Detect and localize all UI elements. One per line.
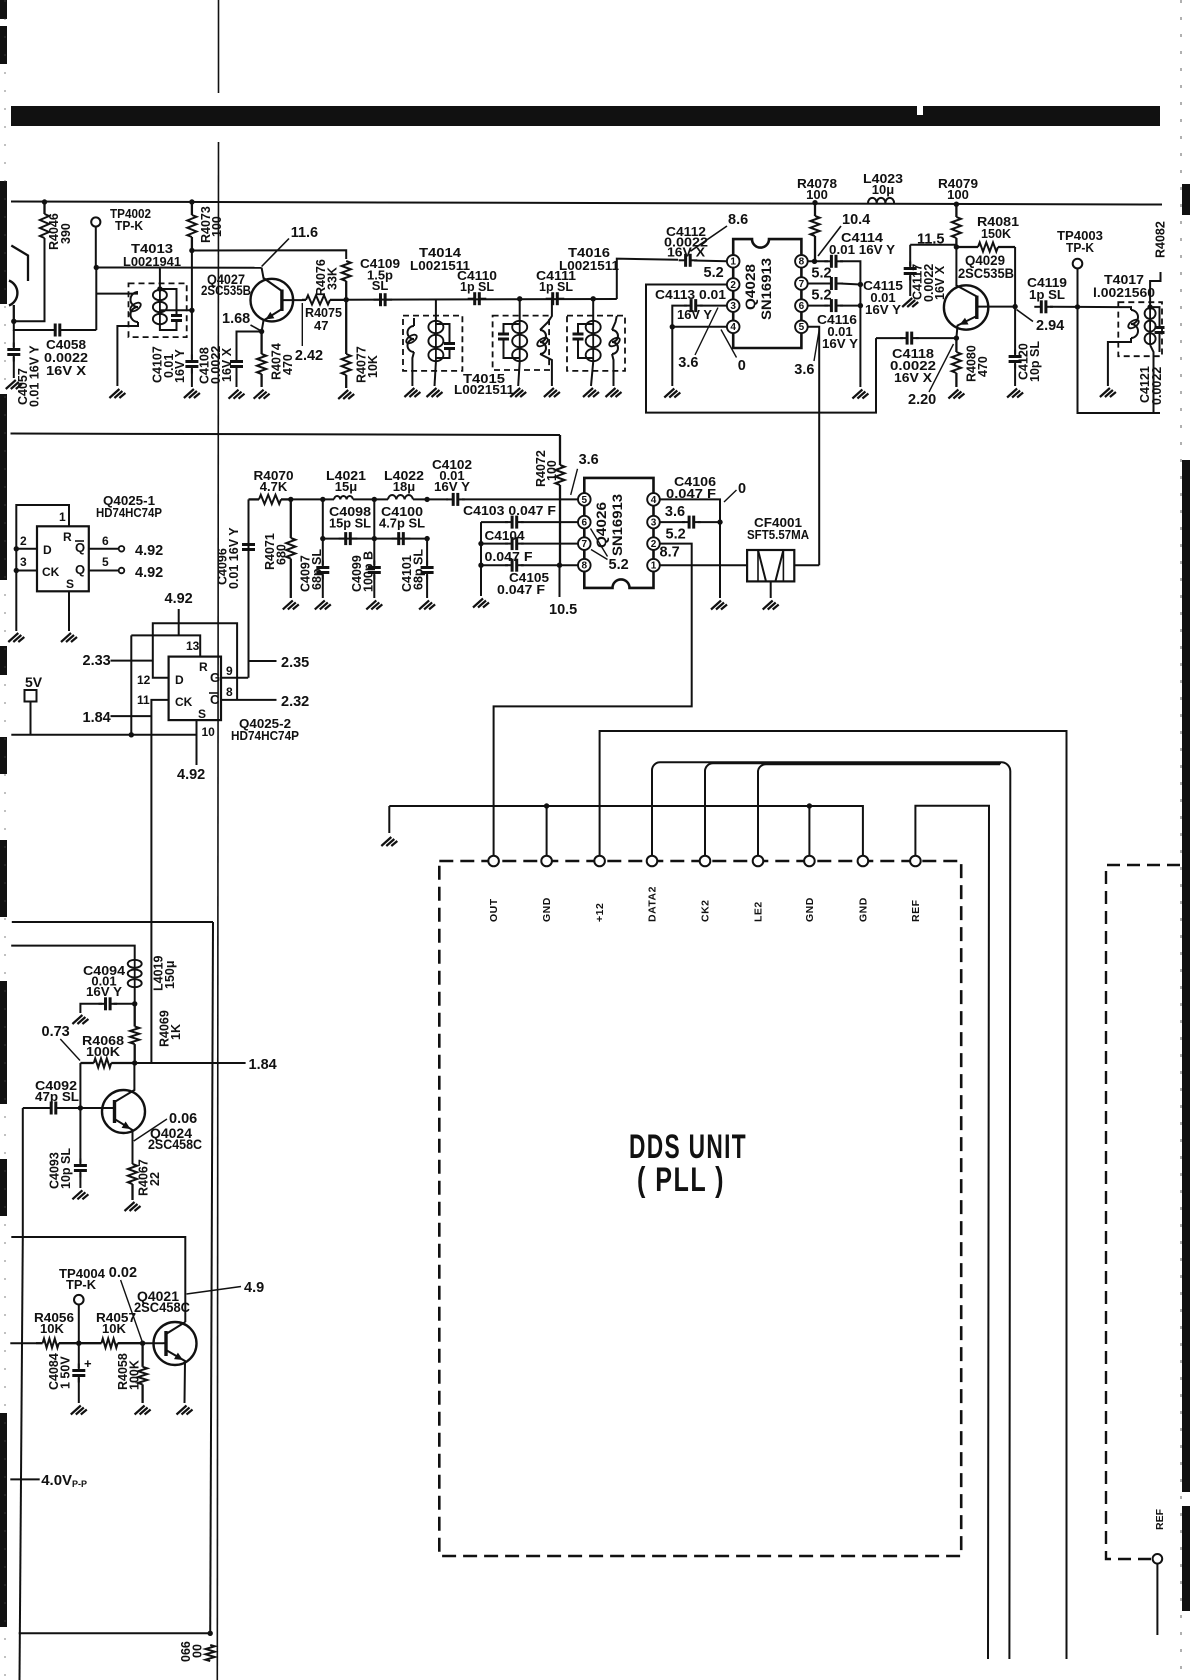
svg-text:10: 10 (202, 725, 216, 739)
svg-text:680: 680 (275, 544, 289, 565)
DDS connector +12 (594, 856, 605, 867)
leader 5.2 pin6 (591, 529, 608, 557)
wire Q4026 pin1 (660, 564, 747, 566)
wire L4021 to L4022 (353, 498, 388, 500)
flip-flop Q4025-1 box (37, 526, 89, 591)
svg-text:CK: CK (175, 695, 193, 709)
svg-text:16V Y: 16V Y (677, 307, 712, 322)
wire GND1 drop (546, 806, 548, 856)
node R4079/base (954, 244, 959, 249)
T4017 primary coil (1127, 310, 1141, 338)
wire 2.35 line (248, 660, 276, 662)
wire C4057 vertical (13, 330, 15, 347)
resistor R4071 (286, 499, 295, 598)
resistor R4070 (249, 495, 291, 504)
wire REF route (915, 806, 989, 1659)
wire L4022 to C4102 (413, 498, 448, 500)
Q4028 pin 3 (727, 299, 740, 312)
transformer T4015 coil (512, 320, 527, 362)
ground C4108 (184, 389, 200, 398)
T4016 output bottom lead (612, 354, 614, 386)
node R4070/R4071 (288, 497, 293, 502)
resistor R4079 (952, 204, 961, 247)
leader 4.9 (187, 1287, 242, 1295)
junction rail/R4079 (954, 202, 959, 207)
svg-text:10μ: 10μ (872, 182, 894, 197)
svg-text:0.047 F: 0.047 F (485, 549, 533, 564)
svg-text:100p B: 100p B (362, 551, 376, 592)
node row/C4099 (372, 536, 377, 541)
T4016 output top lead (612, 316, 617, 330)
leader 3.6 Q4026 (571, 469, 578, 495)
capacitor C4112 (679, 254, 698, 267)
svg-text:22: 22 (148, 1172, 162, 1186)
svg-text:68p SL: 68p SL (412, 549, 426, 590)
svg-text:16V X: 16V X (933, 265, 947, 300)
svg-text:SFT5.57MA: SFT5.57MA (747, 527, 810, 542)
ground T4017 primary (1100, 388, 1116, 397)
node L4019/C4094/R4069 (132, 1001, 137, 1006)
capacitor C4107 (in T4013) (171, 309, 182, 328)
capacitor C4121 (in T4017) (1155, 321, 1165, 340)
svg-text:10K: 10K (366, 355, 380, 378)
svg-text:4: 4 (730, 322, 736, 333)
node T4016 drop (591, 296, 596, 301)
C4121 top lead (1150, 307, 1159, 327)
DDS connector GND (858, 856, 869, 867)
svg-text:Q4026: Q4026 (594, 501, 609, 548)
svg-text:8.6: 8.6 (728, 212, 748, 228)
capacitor C4119 (1034, 300, 1053, 313)
svg-text:100: 100 (947, 187, 969, 202)
wire osc box top (12, 921, 213, 923)
node 5V/R line (129, 732, 134, 737)
ground Q4026 pin4 line (711, 601, 727, 610)
Q4028 pin 1 (727, 255, 740, 268)
capacitor C4114 (824, 255, 843, 268)
svg-text:1p SL: 1p SL (460, 279, 494, 294)
capacitor C4103 (505, 516, 524, 529)
T4017 secondary top out (1150, 272, 1160, 307)
svg-text:G: G (210, 670, 220, 685)
Q4028 pin 2 (727, 278, 740, 291)
wire C4114 to gnd rail (840, 261, 860, 387)
wire C4098 row (323, 538, 427, 540)
wire base Q4024 (80, 1107, 102, 1109)
wire pin8 to C4114 (808, 260, 828, 262)
T4016 output coil (608, 330, 622, 354)
svg-text:18μ: 18μ (393, 479, 415, 494)
capacitor C4092 (44, 1102, 63, 1115)
leader 10.4 (818, 226, 841, 256)
node L4021 left (320, 497, 325, 502)
node C4105 shunt (478, 563, 483, 568)
svg-text:16V Y: 16V Y (822, 336, 858, 351)
capacitor C4105 (505, 559, 524, 572)
svg-text:1.68: 1.68 (222, 311, 250, 327)
svg-text:+12: +12 (594, 903, 606, 922)
wire Q4026 pin4 (660, 499, 720, 598)
wire Q4025-1 R loop (16, 505, 69, 631)
terminal Q4025-1 pin6 (119, 546, 125, 552)
wire C4106 to vert (698, 521, 720, 523)
node R4057/R4058/base (140, 1341, 145, 1346)
svg-text:HD74HC74P: HD74HC74P (96, 505, 162, 520)
svg-text:16V X: 16V X (894, 370, 932, 385)
svg-text:6: 6 (799, 301, 805, 312)
svg-text:100: 100 (545, 460, 559, 481)
wire 5V line (11, 734, 196, 736)
capacitor C4110 (468, 292, 487, 305)
svg-text:l.0021560: l.0021560 (1093, 285, 1155, 300)
svg-text:5.2: 5.2 (666, 527, 686, 543)
node R4073 bottom (189, 248, 194, 253)
node C4106/pin4 vert (717, 519, 722, 524)
T4013 primary bottom lead (117, 322, 138, 386)
svg-text:3: 3 (730, 301, 736, 312)
ground T4014 secondary (427, 388, 443, 397)
svg-text:0.01 16V Y: 0.01 16V Y (28, 345, 42, 407)
svg-text:4.92: 4.92 (135, 543, 163, 559)
left edge registration bars (0, 0, 7, 1627)
wire C4103 line (481, 521, 508, 523)
leader 8.6 (690, 226, 727, 251)
flip-flop Q4025-2 box (169, 657, 221, 721)
svg-text:2.35: 2.35 (281, 655, 309, 671)
left edge dashed film line (4, 0, 6, 1680)
wire base Q4021 (143, 1342, 163, 1344)
terminal Q4025-1 pin5 (119, 568, 125, 574)
wire emitter to bypass cap (237, 332, 262, 360)
T4013 primary top lead (96, 293, 138, 295)
leader 0.02 (121, 1280, 142, 1341)
node emitter of partial transistor (11, 319, 16, 324)
capacitor C4102 (446, 493, 465, 506)
svg-text:2SC535B: 2SC535B (201, 283, 251, 298)
svg-text:16V X: 16V X (667, 245, 705, 260)
Q4028 pin 7 (795, 277, 808, 290)
ground T4015 output (544, 388, 560, 397)
thick top separator bar (11, 106, 1160, 126)
capacitor C4093 (74, 1159, 87, 1178)
svg-text:10p SL: 10p SL (1028, 341, 1042, 382)
node row/C4101 (424, 536, 429, 541)
node bus/GND1 (544, 803, 549, 808)
wire Q4025-1 S to ground (68, 591, 70, 631)
svg-text:C4104: C4104 (485, 528, 526, 543)
ground T4016 output (606, 388, 622, 397)
capacitor C4057 (7, 343, 20, 362)
node TP4002/C4058 (94, 265, 99, 270)
wire C4113 to pin3 (700, 305, 727, 307)
wire Q4025-2 CK route (151, 700, 168, 1063)
svg-text:3: 3 (651, 518, 657, 529)
resistor R4057 (79, 1339, 143, 1348)
svg-text:150K: 150K (981, 226, 1012, 241)
svg-text:3.6: 3.6 (579, 452, 599, 468)
ground C4094 (72, 1015, 88, 1024)
svg-text:2: 2 (651, 539, 657, 550)
resistor R4080 (952, 338, 961, 387)
T4013 internal cap bottom lead (160, 323, 177, 330)
wire C4120 drop (1014, 307, 1016, 354)
svg-text:47: 47 (314, 318, 328, 333)
svg-text:GND: GND (541, 897, 553, 922)
svg-text:L0021941: L0021941 (123, 254, 181, 269)
leader 2.20 (929, 344, 954, 392)
wire 5V stub (30, 702, 32, 735)
resistor R4056 (36, 1339, 79, 1348)
ground R4058 (135, 1406, 151, 1415)
ground T4015 (510, 388, 526, 397)
wire C4103 shunt vertical (480, 522, 482, 596)
svg-text:8.7: 8.7 (660, 545, 680, 561)
Q4028 pin 4 (727, 321, 740, 334)
svg-text:16V Y: 16V Y (434, 479, 470, 494)
wire C4112 to Q4028 pin1 (694, 260, 727, 263)
transistor Q4024 (102, 1063, 145, 1164)
IC Q4028 body (733, 239, 801, 348)
T4014 primary top stub (413, 318, 415, 326)
wire T4017 bottom loop (1078, 307, 1161, 413)
wire TP4004 stub (78, 1305, 80, 1344)
svg-text:+: + (84, 1356, 92, 1371)
wire Q4025-1 pin5 (89, 570, 119, 572)
transformer T4014 coil (428, 320, 443, 362)
node base/R4076/C4109 (344, 297, 349, 302)
wire Q4026 pin2 to OUT (494, 544, 692, 856)
leader 2.94 (1017, 310, 1034, 322)
capacitor C4098 (339, 532, 358, 545)
wire C4092 feed down (22, 1108, 24, 1237)
junction rail/R4078 (812, 200, 817, 205)
capacitor C4104 (505, 537, 524, 550)
leader 0 Q4026 (724, 490, 737, 502)
wire Q4025-2 R to 5V (130, 635, 132, 734)
svg-text:R: R (199, 660, 208, 674)
wire R4070 to L4021 (291, 498, 334, 500)
wire C4092 to base node (60, 1107, 81, 1109)
wire 11.5 line (910, 244, 956, 246)
wire Q4026 pin3 (660, 521, 685, 523)
inductor L4023 (868, 198, 894, 203)
T4016 drop (592, 299, 594, 320)
leader 3.6 Q4028 left (695, 308, 718, 356)
svg-text:2: 2 (20, 534, 27, 548)
svg-text:470: 470 (976, 356, 990, 377)
wire C4118 to emitter (916, 337, 957, 339)
capacitor C4099 (368, 561, 381, 580)
svg-text:8: 8 (226, 685, 233, 699)
leader 0.06 (134, 1119, 167, 1141)
Q4026 pin 3 (647, 516, 660, 529)
wire R4072 stub (559, 565, 561, 597)
test point TP4004 circle (74, 1295, 84, 1305)
node C4116/gnd rail (858, 303, 863, 308)
wire C4097 branch (322, 499, 324, 538)
svg-text:L0021511: L0021511 (454, 382, 514, 397)
ground C4103 shunt (473, 599, 489, 608)
capacitor C4111 (546, 292, 565, 305)
svg-text:S: S (198, 707, 206, 721)
resistor R4072 (555, 435, 564, 565)
svg-text:11.5: 11.5 (917, 232, 944, 248)
svg-text:5V: 5V (25, 674, 43, 690)
svg-text:0.01 16V Y: 0.01 16V Y (227, 527, 241, 589)
DDS connector LE2 (753, 856, 764, 867)
svg-text:16V X: 16V X (220, 347, 234, 382)
test point TP4003 circle (1073, 259, 1083, 269)
svg-text:2.20: 2.20 (908, 392, 936, 408)
svg-text:10.5: 10.5 (549, 602, 577, 618)
svg-text:TP-K: TP-K (1066, 240, 1095, 255)
wire C4099 vert (373, 539, 375, 565)
wire C4116 to gnd rail (840, 305, 860, 307)
C4121 bottom lead (1159, 333, 1161, 353)
DDS connector DATA2 (647, 856, 658, 867)
wire ground bus left drop (388, 806, 390, 833)
svg-text:9: 9 (226, 664, 233, 678)
right edge dashed film line (1180, 0, 1182, 1680)
transformer T4016 coil (586, 320, 601, 362)
svg-text:C4103 0.047 F: C4103 0.047 F (463, 503, 556, 518)
svg-text:4: 4 (651, 495, 657, 506)
ground R4080 (948, 390, 964, 399)
svg-text:CK: CK (42, 565, 60, 579)
resistor R4078 (810, 203, 819, 262)
node C4113/pin4 (670, 324, 675, 329)
svg-text:1K: 1K (169, 1024, 183, 1040)
svg-text:3.6: 3.6 (665, 504, 685, 520)
T4015 output bottom lead (540, 354, 552, 386)
node T4015 drop (517, 296, 522, 301)
svg-text:HD74HC74P: HD74HC74P (231, 728, 299, 743)
Q4026 pin 5 (578, 493, 591, 506)
svg-text:2.32: 2.32 (281, 694, 309, 710)
capacitor C4101 (421, 561, 434, 580)
wire C4119 to TP4003 node (1050, 306, 1078, 308)
Q4026 pin 7 (578, 537, 591, 550)
wire C4084 vert (78, 1343, 80, 1368)
svg-text:10p SL: 10p SL (59, 1148, 73, 1189)
T4015 cap connector (504, 324, 520, 331)
node tap/C4108 (189, 308, 194, 313)
ground R4067 (125, 1202, 141, 1211)
wire LE2 route (758, 764, 1000, 855)
wire 4.92 top line (11, 434, 561, 436)
svg-text:470: 470 (281, 354, 295, 375)
svg-text:1.84: 1.84 (83, 710, 111, 726)
wire bypass cap to ground (236, 369, 238, 387)
svg-text:S: S (66, 577, 74, 591)
vertical fold line (main) (217, 142, 218, 1680)
capacitor C4120 (1009, 350, 1022, 369)
T4017 primary bottom lead (1108, 338, 1131, 386)
svg-text:6: 6 (582, 518, 588, 529)
resistor R4075 (302, 295, 346, 304)
resistor R4076 (342, 261, 351, 300)
wire C4118 line (876, 337, 903, 339)
wire R4068 left down (79, 1063, 81, 1108)
ground C4120 (1007, 389, 1023, 398)
node R4072/C4105 (557, 563, 562, 568)
T4014 primary coil (405, 326, 419, 352)
junction rail/R4073 (189, 199, 194, 204)
svg-text:16V Y: 16V Y (86, 984, 122, 999)
ground emitter bypass cap (229, 390, 245, 399)
Q4025-1 Qbar overline (75, 540, 84, 542)
svg-text:SN16913: SN16913 (759, 257, 774, 320)
wire pin6 to C4116 (808, 305, 828, 307)
node L4021/L4022 (372, 497, 377, 502)
partial transistor at left margin (9, 246, 28, 322)
svg-text:REF: REF (910, 899, 922, 922)
resistor R4073 (187, 202, 196, 251)
svg-text:2SC458C: 2SC458C (148, 1137, 202, 1152)
wire L4019 to junction (134, 988, 136, 1004)
wire C4104 to pin7 (521, 543, 578, 545)
svg-text:100: 100 (210, 216, 224, 237)
wire C4097 vert (322, 539, 324, 565)
node Q4027 emitter (259, 329, 264, 334)
ground C4099 (366, 600, 382, 609)
ground CF4001 (763, 601, 779, 610)
svg-text:1 50V: 1 50V (59, 1356, 73, 1389)
ground T4016 (583, 388, 599, 397)
5V supply square (25, 690, 37, 702)
svg-text:13: 13 (186, 639, 200, 653)
wire C4058 line (14, 321, 51, 330)
capacitor in T4014 (444, 337, 455, 356)
svg-text:5.2: 5.2 (704, 265, 724, 281)
wire TP4002 node to Q4027 collector (96, 267, 261, 269)
DDS unit dashed box (439, 861, 961, 1556)
svg-text:1: 1 (651, 561, 657, 572)
capacitor C4118 (900, 332, 919, 345)
ground C4114-C4116 rail (852, 390, 868, 399)
svg-text:0: 0 (738, 481, 746, 497)
wire emitter to R4046 bottom (14, 238, 45, 321)
svg-text:1: 1 (59, 510, 66, 524)
wire Q4028 pin5 down (808, 327, 820, 565)
svg-text:5: 5 (799, 322, 805, 333)
wire C4057 to ground (13, 357, 15, 378)
wire C4117 drop (909, 245, 911, 266)
T4015 output top lead (540, 299, 552, 330)
svg-text:6: 6 (102, 534, 109, 548)
inductor L4019 (128, 959, 142, 988)
node T4013 secondary top (157, 286, 162, 291)
svg-text:Q4028: Q4028 (743, 263, 758, 310)
wire osc box bottom (19, 1632, 211, 1634)
Q4025-2 Qbar overline (209, 692, 218, 694)
Q4028 pin 6 (795, 299, 808, 312)
DDS connector CK2 (700, 856, 711, 867)
svg-text:100K: 100K (86, 1044, 121, 1059)
T4015 drop (519, 299, 521, 320)
node TP4004/C4084 (76, 1341, 81, 1346)
svg-text:15p SL: 15p SL (329, 516, 371, 531)
ground R4077 (338, 390, 354, 399)
osc box right edge (210, 922, 213, 1633)
svg-text:100K: 100K (128, 1360, 142, 1390)
ground C4057 (6, 380, 22, 389)
svg-text:10K: 10K (40, 1321, 64, 1336)
node Q4029 emitter (954, 335, 959, 340)
leader 0.73 (60, 1039, 80, 1061)
DDS connector GND (541, 856, 552, 867)
wire 1.84 line lower (135, 1062, 246, 1064)
